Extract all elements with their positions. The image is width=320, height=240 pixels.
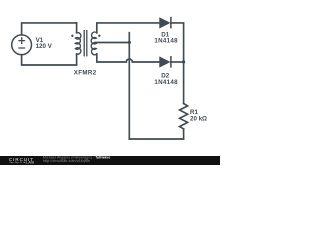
wire secondary top to D1	[97, 23, 160, 33]
wire D1 cathode to right rail	[171, 23, 184, 62]
diode D1	[160, 18, 171, 28]
watermark bar	[0, 156, 220, 165]
CircuitLab logo LAB	[9, 161, 34, 165]
junction node center tap	[128, 41, 131, 44]
transformer XFMR2 secondary coil	[91, 32, 97, 55]
phase dot secondary	[98, 35, 100, 37]
transformer XFMR2 primary coil	[75, 33, 80, 55]
wire center tap horizontal	[95, 42, 129, 44]
diode D2	[160, 57, 171, 67]
wire R1 bottom lead	[183, 129, 185, 139]
wire center tap vertical	[128, 33, 130, 139]
svg-text:20 kΩ: 20 kΩ	[190, 116, 207, 123]
svg-text:http://circuitlab.com/c64qr8e: http://circuitlab.com/c64qr8e	[43, 159, 90, 163]
svg-text:LAB: LAB	[26, 161, 35, 165]
wire V1 top to rail	[22, 23, 77, 35]
svg-text:1N4148: 1N4148	[154, 79, 178, 86]
junction node D1/D2 cathodes	[182, 60, 185, 63]
svg-text:XFMR2: XFMR2	[74, 70, 97, 77]
wire secondary bottom to D2 with hop	[97, 54, 160, 62]
svg-text:1N4148: 1N4148	[154, 37, 178, 44]
voltage source V1	[12, 35, 32, 55]
wire V1 bottom	[22, 54, 77, 65]
resistor R1	[180, 104, 188, 129]
wire primary top drop	[76, 23, 78, 33]
wire bottom rail	[129, 138, 183, 140]
svg-text:120 V: 120 V	[36, 43, 53, 50]
transformer core	[84, 31, 87, 56]
phase dot primary	[71, 35, 73, 37]
wire D2 cathode to right rail	[171, 61, 184, 63]
wire right rail down to R1	[183, 62, 185, 104]
